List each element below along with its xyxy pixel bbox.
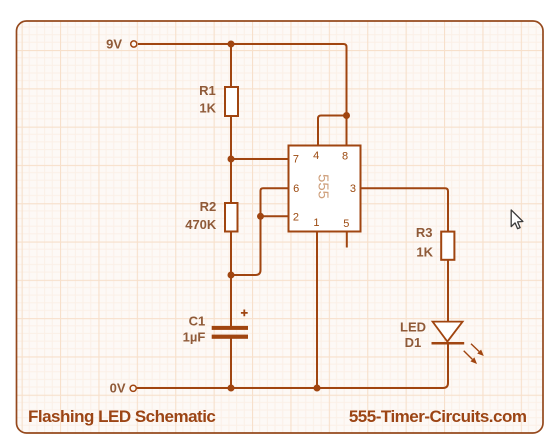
svg-text:5: 5 — [343, 218, 349, 230]
wire node B to C1 top — [230, 275, 232, 326]
svg-text:8: 8 — [342, 151, 348, 163]
LED D1 cathode bar — [432, 342, 465, 345]
node B junction — [228, 272, 235, 279]
svg-text:R2: R2 — [200, 199, 217, 214]
svg-text:555: 555 — [314, 174, 331, 199]
svg-text:7: 7 — [293, 154, 299, 166]
svg-text:C1: C1 — [189, 314, 206, 329]
svg-text:1: 1 — [313, 217, 319, 229]
svg-text:1K: 1K — [416, 245, 433, 260]
wire R1 bottom to node A — [230, 116, 232, 159]
wire pin4 up and to junction — [318, 116, 347, 146]
node pin1/0V junction — [314, 385, 321, 392]
mouse cursor — [511, 210, 523, 229]
svg-text:555-Timer-Circuits.com: 555-Timer-Circuits.com — [349, 407, 527, 426]
wire 9V rail — [138, 44, 347, 116]
LED arrow 2 — [464, 351, 477, 364]
wire 9V to R1 top — [230, 44, 232, 87]
svg-text:2: 2 — [293, 212, 299, 224]
node A junction — [228, 156, 235, 163]
svg-text:Flashing LED Schematic: Flashing LED Schematic — [28, 407, 215, 426]
svg-text:0V: 0V — [110, 380, 126, 395]
wire R2 bottom to node B — [230, 232, 232, 276]
wire node A to R2 top — [230, 159, 232, 203]
wire C1 bottom to 0V rail — [230, 338, 232, 388]
wire pin 6 down to pin 2 — [261, 188, 289, 216]
svg-text:6: 6 — [293, 183, 299, 195]
node C1/0V junction — [228, 385, 235, 392]
capacitor C1 plus sign — [241, 310, 248, 317]
op-amp U1 555 IC body — [289, 146, 361, 232]
node pin4/8 junction — [343, 112, 350, 119]
wire R3 bottom to LED — [447, 260, 449, 322]
capacitor C1 plates — [212, 326, 248, 339]
wire 0V rail — [137, 343, 448, 388]
svg-text:1µF: 1µF — [183, 330, 206, 345]
wire pin8 from junction to IC top — [346, 116, 348, 146]
svg-text:4: 4 — [313, 150, 319, 162]
terminal 0V — [130, 385, 136, 391]
svg-text:470K: 470K — [185, 217, 217, 232]
resistor R2 — [225, 203, 238, 232]
LED arrow 1 — [471, 344, 484, 356]
wire pin2/6 node down to node B — [231, 216, 261, 275]
svg-text:9V: 9V — [106, 37, 122, 52]
node 9V/R1 junction — [228, 41, 235, 48]
svg-text:R1: R1 — [199, 83, 216, 98]
svg-text:1K: 1K — [199, 101, 216, 116]
resistor R1 — [225, 87, 238, 116]
svg-text:3: 3 — [350, 183, 356, 195]
terminal 9V — [131, 41, 137, 47]
wire pin 2 stub — [261, 215, 289, 217]
resistor R3 — [441, 232, 454, 260]
wire pin 1 to 0V rail — [316, 232, 318, 389]
wire node A to pin 7 — [231, 158, 289, 160]
svg-text:LED: LED — [400, 319, 426, 334]
wire pin 3 to R3 — [361, 188, 449, 232]
node pin2/6 junction — [257, 213, 264, 220]
wire pin 5 stub — [346, 232, 348, 248]
LED D1 triangle — [433, 322, 463, 342]
svg-text:D1: D1 — [405, 335, 422, 350]
svg-text:R3: R3 — [416, 225, 433, 240]
